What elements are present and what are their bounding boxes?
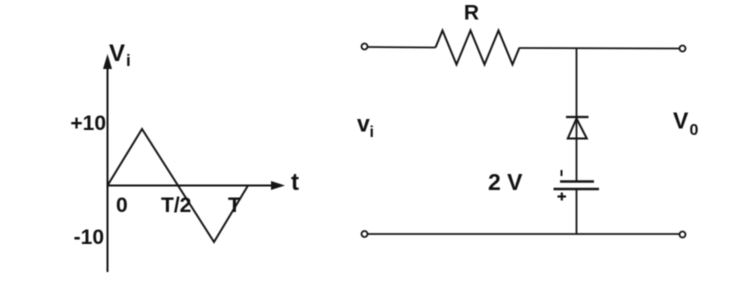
terminal top-left bbox=[362, 44, 368, 50]
wire junction to diode bbox=[576, 48, 578, 181]
arrowhead Vi axis bbox=[103, 54, 112, 69]
wire battery to bottom rail bbox=[576, 189, 578, 234]
svg-text:R: R bbox=[464, 2, 479, 25]
wire top-left to resistor bbox=[368, 46, 436, 49]
battery plus sign bbox=[558, 193, 567, 201]
svg-text:i: i bbox=[126, 51, 131, 70]
battery long plate (positive) bbox=[554, 188, 600, 190]
battery short plate (negative) bbox=[560, 180, 594, 182]
wire bottom rail bbox=[368, 233, 680, 235]
svg-text:T: T bbox=[228, 194, 241, 217]
svg-text:-10: -10 bbox=[74, 226, 104, 249]
svg-text:V: V bbox=[673, 108, 689, 134]
terminal top-right bbox=[680, 46, 686, 52]
svg-text:0: 0 bbox=[116, 194, 128, 217]
svg-text:V: V bbox=[109, 40, 125, 67]
arrowhead t axis bbox=[271, 181, 285, 190]
resistor R bbox=[436, 31, 520, 65]
svg-text:i: i bbox=[370, 124, 374, 141]
waveform Vi triangle wave bbox=[108, 129, 249, 242]
svg-text:0: 0 bbox=[690, 122, 699, 139]
svg-text:2 V: 2 V bbox=[488, 169, 523, 195]
diode D triangle bbox=[568, 119, 587, 139]
svg-text:v: v bbox=[357, 111, 370, 137]
svg-text:T/2: T/2 bbox=[161, 194, 191, 217]
diode D cathode bar bbox=[566, 116, 589, 118]
terminal bottom-right bbox=[680, 232, 686, 238]
svg-text:+10: +10 bbox=[70, 112, 106, 135]
terminal bottom-left bbox=[362, 231, 368, 237]
node t axis (horizontal) bbox=[108, 185, 273, 187]
wire resistor to top-right terminal bbox=[520, 47, 680, 50]
node Vi axis (vertical) bbox=[107, 58, 109, 272]
battery minus tick bbox=[561, 170, 563, 176]
svg-text:t: t bbox=[291, 169, 299, 196]
